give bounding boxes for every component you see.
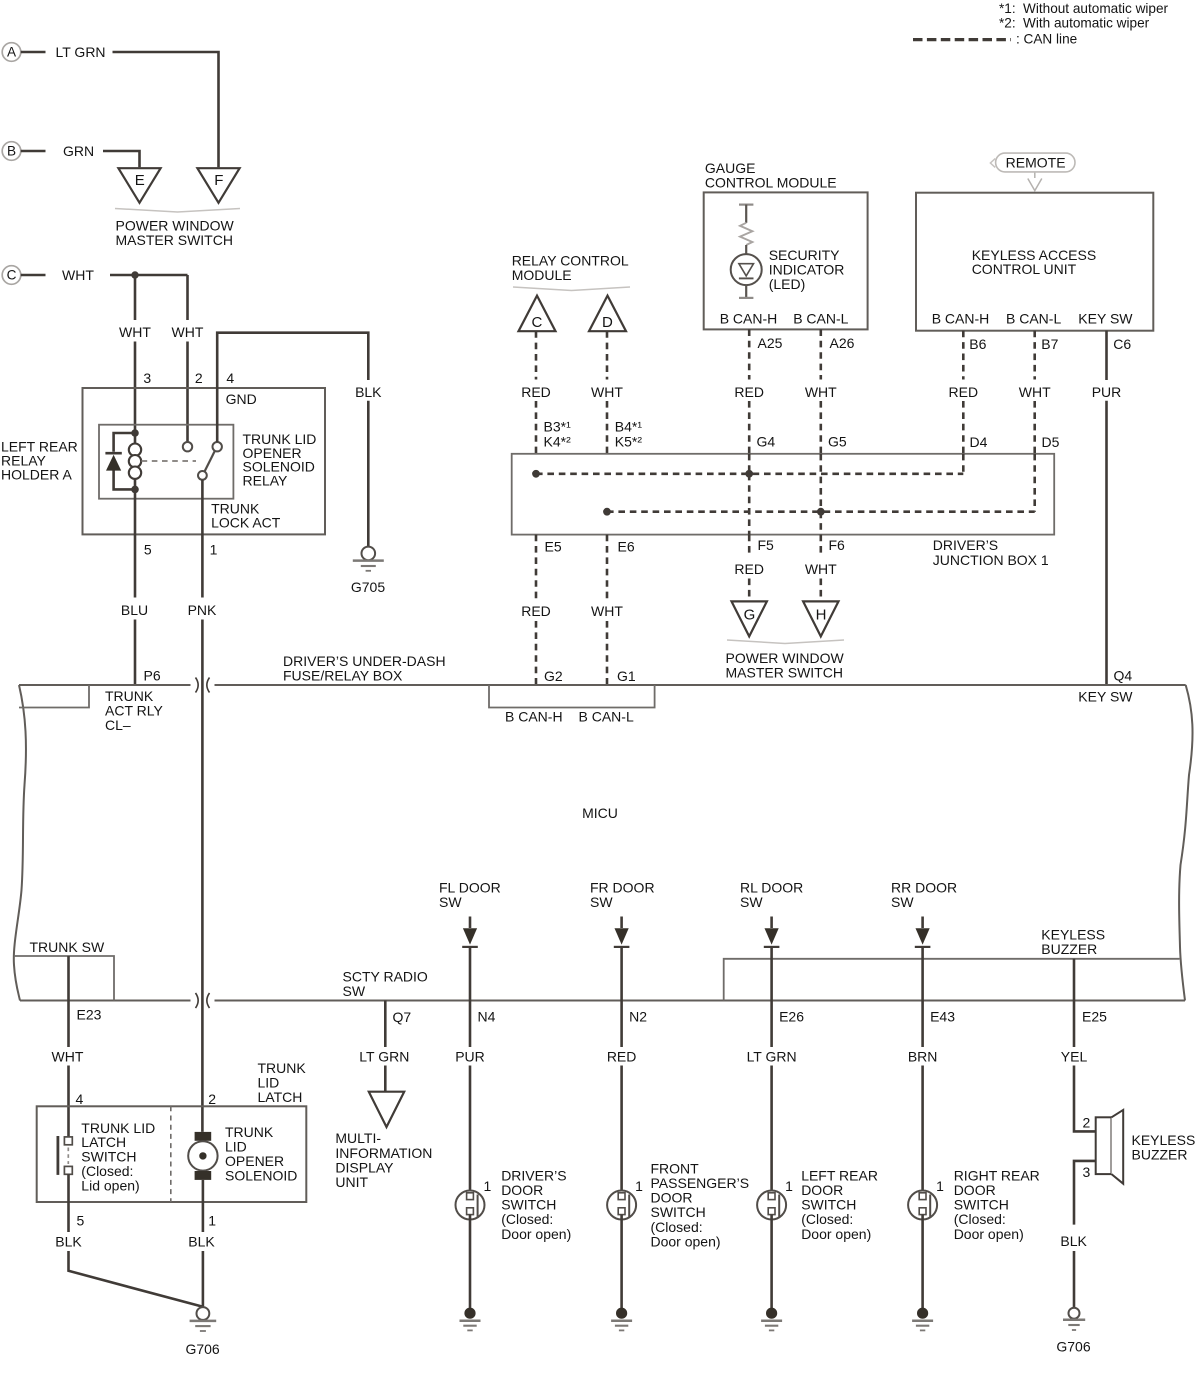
svg-text:RIGHT REAR: RIGHT REAR: [954, 1167, 1040, 1183]
left rear relay holder A outer box: [83, 388, 326, 534]
left rear door switch: [757, 1191, 786, 1220]
wire LT GRN Q7 to multi-information display unit: [384, 1001, 387, 1048]
trunk lid opener solenoid relay inner box: [99, 425, 233, 499]
svg-text:(Closed:: (Closed:: [501, 1211, 553, 1227]
keyless buzzer: [1096, 1117, 1112, 1174]
wire WHT gauge A26 to junction box: [819, 329, 822, 379]
svg-text:SWITCH: SWITCH: [801, 1197, 856, 1213]
svg-text:Q4: Q4: [1114, 668, 1133, 684]
svg-text:FUSE/RELAY BOX: FUSE/RELAY BOX: [283, 668, 403, 684]
svg-text:WHT: WHT: [591, 384, 623, 400]
driver's door switch: [456, 1191, 485, 1220]
node CAN-H at C: [532, 470, 540, 478]
gauge control module box: [704, 192, 868, 329]
relay switch terminal pin4: [213, 442, 222, 451]
svg-text:N4: N4: [478, 1009, 496, 1025]
svg-text:GND: GND: [226, 391, 257, 407]
svg-text:MODULE: MODULE: [512, 267, 572, 283]
svg-text:G706: G706: [185, 1341, 219, 1357]
svg-text:K4*²: K4*²: [544, 433, 572, 449]
svg-text:B6: B6: [969, 336, 986, 352]
CAN-H dashed bus: [536, 472, 963, 475]
terminal H (power window master switch): [803, 601, 838, 636]
svg-text:B: B: [7, 144, 16, 159]
wire RED gauge A25 to junction box: [748, 329, 751, 379]
MICU top edge: [19, 684, 1186, 686]
svg-text:RED: RED: [949, 384, 979, 400]
svg-text:C6: C6: [1113, 336, 1131, 352]
CAN-L dashed bus: [607, 510, 1035, 513]
front passenger's door switch: [607, 1191, 636, 1220]
driver's junction box 1: [512, 454, 1054, 535]
ground (right rear door switch): [917, 1308, 928, 1319]
svg-text:*2:: *2:: [999, 16, 1016, 31]
svg-text:Door open): Door open): [651, 1233, 721, 1249]
svg-text:A: A: [7, 45, 17, 60]
wire left rear door switch to ground: [770, 1215, 773, 1309]
svg-text:E5: E5: [545, 539, 562, 555]
svg-text:GRN: GRN: [63, 143, 94, 159]
node CAN-L at F6: [817, 508, 825, 516]
node junction on wire C: [131, 271, 138, 278]
svg-text:(Closed:: (Closed:: [954, 1211, 1006, 1227]
svg-text:UNIT: UNIT: [335, 1174, 368, 1190]
wire RED E5 to MICU G2: [535, 535, 538, 599]
bracket under G/H: [727, 640, 844, 644]
svg-text:PUR: PUR: [1092, 384, 1122, 400]
wire PUR N4 to driver's door switch: [469, 1001, 472, 1048]
coil-switch dashed link: [142, 460, 196, 462]
wire PNK relay pin1 through MICU to solenoid: [201, 480, 204, 598]
svg-text:WHT: WHT: [62, 267, 94, 283]
svg-text:Q7: Q7: [393, 1009, 412, 1025]
svg-text:BRN: BRN: [908, 1049, 938, 1065]
svg-text:Door open): Door open): [501, 1226, 571, 1242]
svg-text:With automatic wiper: With automatic wiper: [1023, 16, 1150, 31]
svg-text:5: 5: [77, 1212, 85, 1228]
bottom right sub-box: [724, 959, 1180, 1001]
svg-text:E43: E43: [930, 1009, 955, 1025]
svg-text:*1:: *1:: [999, 1, 1016, 16]
wire WHT E6 to MICU G1: [606, 535, 609, 599]
REMOTE tag: [996, 153, 1075, 172]
wire YEL E25 to keyless buzzer: [1073, 959, 1076, 1047]
svg-text:C: C: [7, 268, 17, 283]
svg-text:F5: F5: [758, 537, 775, 553]
svg-text:1: 1: [210, 541, 218, 557]
svg-text:F6: F6: [829, 537, 846, 553]
multi-information display unit terminal: [369, 1092, 404, 1127]
wire latch switch to pin 5: [67, 1174, 70, 1232]
relay switch terminal pin2: [183, 442, 192, 451]
svg-text:Without automatic wiper: Without automatic wiper: [1023, 1, 1169, 16]
svg-text:C: C: [531, 314, 542, 331]
svg-text:1: 1: [208, 1212, 216, 1228]
RR door sw input arrow: [921, 917, 924, 929]
svg-text:CONTROL MODULE: CONTROL MODULE: [705, 174, 837, 190]
wire C horizontal to relay pin 2 branch: [110, 274, 188, 277]
svg-text:1: 1: [484, 1178, 492, 1194]
wire BRN E43 to right rear door switch: [921, 1001, 924, 1048]
svg-text:POWER WINDOW: POWER WINDOW: [726, 650, 845, 666]
junction box internal dashed wires: [748, 454, 751, 474]
svg-text:BLU: BLU: [121, 602, 148, 618]
internal tick bottom: [739, 297, 753, 299]
ground (front passenger's door switch): [616, 1308, 627, 1319]
svg-text:A25: A25: [758, 335, 783, 351]
svg-text:PUR: PUR: [455, 1049, 485, 1065]
svg-text:TRUNK SW: TRUNK SW: [30, 939, 105, 955]
svg-text:3: 3: [1083, 1164, 1091, 1180]
svg-text:SW: SW: [891, 894, 914, 910]
svg-text:KEY SW: KEY SW: [1078, 689, 1133, 705]
trunk sw sub-box: [14, 956, 114, 1001]
bracket under relay control module: [513, 287, 630, 291]
svg-text:1: 1: [635, 1178, 643, 1194]
trunk lid latch divider: [170, 1106, 172, 1202]
FR door sw input arrow: [620, 917, 623, 929]
svg-text:E25: E25: [1082, 1008, 1107, 1024]
svg-text:DRIVER’S: DRIVER’S: [501, 1167, 566, 1183]
svg-text:D5: D5: [1042, 434, 1060, 450]
svg-text:G705: G705: [351, 579, 385, 595]
svg-text:2: 2: [1083, 1115, 1091, 1131]
wire BLU relay pin5 to MICU P6: [134, 489, 137, 597]
svg-text:G2: G2: [544, 668, 563, 684]
svg-text:DISPLAY: DISPLAY: [335, 1159, 394, 1175]
svg-text:WHT: WHT: [805, 561, 837, 577]
svg-text:D4: D4: [970, 434, 988, 450]
svg-text:MULTI-: MULTI-: [335, 1130, 381, 1146]
svg-text:RELAY CONTROL: RELAY CONTROL: [512, 252, 629, 268]
svg-text:2: 2: [208, 1091, 216, 1107]
terminal C (relay control module): [519, 296, 556, 332]
svg-text:HOLDER A: HOLDER A: [1, 466, 72, 482]
svg-text:DOOR: DOOR: [954, 1182, 996, 1198]
svg-text:RED: RED: [521, 384, 551, 400]
svg-text:SOLENOID: SOLENOID: [225, 1167, 297, 1183]
trunk act rly sub-box: [19, 685, 89, 708]
svg-text:JUNCTION BOX 1: JUNCTION BOX 1: [933, 552, 1049, 568]
svg-text:B CAN-H: B CAN-H: [720, 311, 778, 327]
svg-text:BLK: BLK: [1060, 1233, 1087, 1249]
svg-text:YEL: YEL: [1061, 1049, 1088, 1065]
svg-text:B CAN-L: B CAN-L: [1006, 311, 1061, 327]
terminal F (power window master switch): [197, 168, 239, 203]
bracket under E/F: [115, 209, 240, 213]
node relay coil top: [131, 429, 139, 437]
wire RED terminal C to junction box: [535, 331, 538, 379]
svg-text:A26: A26: [830, 335, 855, 351]
svg-text:MICU: MICU: [582, 805, 618, 821]
svg-text:DOOR: DOOR: [651, 1190, 693, 1206]
svg-text:1: 1: [936, 1178, 944, 1194]
MICU left torn edge: [14, 685, 26, 1001]
wire A to terminal F: [113, 52, 219, 167]
svg-text:DRIVER’S UNDER-DASH: DRIVER’S UNDER-DASH: [283, 653, 446, 669]
svg-text:: CAN line: : CAN line: [1016, 31, 1077, 46]
wire RED N2 to front passenger's door switch: [620, 1001, 623, 1048]
svg-text:BUZZER: BUZZER: [1132, 1146, 1188, 1162]
svg-text:WHT: WHT: [591, 603, 623, 619]
latch switch terminal bottom: [64, 1166, 72, 1174]
wire WHT to relay pin 3: [134, 275, 137, 320]
svg-text:B CAN-L: B CAN-L: [793, 311, 848, 327]
terminal D (relay control module): [589, 296, 626, 332]
svg-text:K5*²: K5*²: [615, 433, 643, 449]
svg-text:WHT: WHT: [119, 324, 151, 340]
legend CAN line sample: [913, 38, 1011, 41]
svg-text:BLK: BLK: [355, 384, 382, 400]
wire WHT terminal D to junction box: [606, 331, 609, 379]
svg-text:WHT: WHT: [52, 1049, 84, 1065]
svg-text:H: H: [816, 607, 827, 624]
wire C to WHT label: [21, 274, 46, 277]
svg-text:DOOR: DOOR: [501, 1182, 543, 1198]
relay coil: [134, 433, 137, 444]
latch switch dashed contact: [67, 1148, 69, 1165]
wire front passenger's door switch to ground: [620, 1215, 623, 1309]
svg-text:SWITCH: SWITCH: [501, 1197, 556, 1213]
svg-text:G: G: [744, 607, 756, 624]
svg-text:REMOTE: REMOTE: [1006, 154, 1066, 170]
node CAN-H at G4: [745, 470, 753, 478]
svg-text:DOOR: DOOR: [801, 1182, 843, 1198]
remote arrow into keyless unit: [1034, 173, 1036, 178]
ground (left rear door switch): [766, 1308, 777, 1319]
svg-text:BUZZER: BUZZER: [1041, 941, 1097, 957]
svg-text:DRIVER’S: DRIVER’S: [933, 537, 998, 553]
svg-text:SWITCH: SWITCH: [651, 1204, 706, 1220]
svg-text:SW: SW: [590, 894, 613, 910]
trunk lid opener solenoid motor: [188, 1141, 217, 1170]
connector C: [2, 266, 21, 285]
wire crossing marks top edge: [196, 678, 210, 693]
svg-text:G4: G4: [757, 434, 776, 450]
svg-text:CONTROL UNIT: CONTROL UNIT: [972, 261, 1077, 277]
svg-text:BLK: BLK: [188, 1234, 215, 1250]
svg-text:RED: RED: [734, 384, 764, 400]
svg-text:4: 4: [76, 1091, 84, 1107]
svg-text:B CAN-H: B CAN-H: [505, 709, 563, 725]
svg-text:INFORMATION: INFORMATION: [335, 1145, 432, 1161]
svg-text:SW: SW: [740, 894, 763, 910]
svg-text:WHT: WHT: [172, 324, 204, 340]
wire BLK buzzer to ground: [1074, 1161, 1096, 1225]
node CAN-L at D: [603, 508, 611, 516]
svg-text:Door open): Door open): [954, 1226, 1024, 1242]
wire B to GRN label: [21, 150, 46, 153]
svg-text:MASTER SWITCH: MASTER SWITCH: [726, 665, 843, 681]
svg-text:LOCK ACT: LOCK ACT: [211, 515, 281, 531]
svg-text:B CAN-L: B CAN-L: [579, 709, 634, 725]
wire driver's door switch to ground: [469, 1215, 472, 1309]
svg-text:WHT: WHT: [805, 384, 837, 400]
svg-text:E23: E23: [77, 1007, 102, 1023]
MICU bottom edge: [20, 1000, 1185, 1002]
wire B to terminal E: [103, 151, 140, 167]
svg-text:(Closed:: (Closed:: [801, 1211, 853, 1227]
svg-text:POWER WINDOW: POWER WINDOW: [116, 218, 235, 234]
svg-text:LEFT REAR: LEFT REAR: [801, 1167, 878, 1183]
MICU right torn edge: [1179, 685, 1192, 1001]
terminal G (power window master switch): [732, 601, 767, 636]
svg-text:Door open): Door open): [801, 1226, 871, 1242]
svg-text:5: 5: [144, 541, 152, 557]
connector B: [2, 142, 21, 161]
svg-text:WHT: WHT: [1019, 384, 1051, 400]
resistor R (security indicator): [740, 223, 752, 245]
svg-text:LT GRN: LT GRN: [359, 1049, 409, 1065]
diode cathode bar: [105, 452, 121, 455]
FL door sw input arrow: [469, 917, 472, 929]
connector A: [2, 43, 21, 62]
svg-text:P6: P6: [144, 668, 161, 684]
svg-text:LT GRN: LT GRN: [56, 44, 106, 60]
svg-text:RED: RED: [607, 1049, 637, 1065]
svg-text:PASSENGER’S: PASSENGER’S: [651, 1175, 750, 1191]
svg-text:(Closed:: (Closed:: [651, 1219, 703, 1235]
wire relay pin4 to BLK ground: [217, 333, 368, 442]
svg-text:RED: RED: [734, 561, 764, 577]
node relay coil bottom: [131, 486, 139, 494]
ground G706 (trunk): [197, 1307, 210, 1320]
svg-text:G1: G1: [617, 668, 636, 684]
wire A to LT GRN label: [21, 51, 46, 54]
security indicator LED: [731, 254, 762, 285]
right rear door switch: [908, 1191, 937, 1220]
terminal E (power window master switch): [118, 168, 160, 203]
svg-text:FRONT: FRONT: [651, 1160, 700, 1176]
relay clamp diode branch wire: [114, 433, 135, 489]
svg-text:SW: SW: [343, 983, 366, 999]
wire solenoid to ground: [202, 1180, 205, 1232]
wire WHT F6 to terminal H: [819, 535, 822, 557]
wire WHT keyless B7 to junction box D5: [1033, 331, 1036, 380]
RL door sw input arrow: [770, 917, 773, 929]
B CAN sub-box: [489, 685, 655, 708]
svg-text:N2: N2: [629, 1009, 647, 1025]
wire RED keyless B6 to junction box D4: [962, 331, 965, 380]
internal tick top: [739, 204, 753, 206]
svg-text:2: 2: [195, 370, 203, 386]
wire LT GRN E26 to left rear door switch: [770, 1001, 773, 1048]
relay switch common terminal: [198, 471, 207, 480]
svg-text:G706: G706: [1056, 1338, 1090, 1354]
svg-text:3: 3: [143, 370, 151, 386]
svg-text:LT GRN: LT GRN: [747, 1049, 797, 1065]
svg-text:F: F: [214, 172, 223, 189]
trunk lid latch box: [37, 1106, 307, 1202]
svg-text:PNK: PNK: [188, 602, 217, 618]
svg-text:Lid open): Lid open): [81, 1177, 139, 1193]
wire PUR keyless C6 to MICU Q4: [1105, 331, 1108, 380]
svg-text:4: 4: [226, 370, 234, 386]
svg-text:B CAN-H: B CAN-H: [932, 311, 990, 327]
svg-text:RELAY: RELAY: [243, 472, 289, 488]
diode D1: [106, 455, 121, 471]
svg-text:E6: E6: [618, 539, 635, 555]
wire crossing marks bottom edge: [196, 993, 210, 1008]
svg-text:SWITCH: SWITCH: [954, 1197, 1009, 1213]
latch switch terminal top: [64, 1137, 72, 1145]
svg-text:1: 1: [785, 1178, 793, 1194]
trunk lid latch switch plunger: [57, 1136, 60, 1175]
keyless access control unit box: [916, 193, 1153, 331]
svg-text:RED: RED: [521, 603, 551, 619]
wire WHT to relay pin 2: [186, 275, 189, 320]
svg-text:KEY SW: KEY SW: [1078, 311, 1133, 327]
svg-text:B3*¹: B3*¹: [544, 419, 572, 435]
svg-text:G5: G5: [828, 434, 847, 450]
ground (driver's door switch): [464, 1308, 475, 1319]
svg-text:B7: B7: [1041, 336, 1058, 352]
ground G705: [362, 547, 376, 561]
svg-text:B4*¹: B4*¹: [615, 419, 643, 435]
svg-text:CL–: CL–: [105, 717, 131, 733]
svg-text:LATCH: LATCH: [258, 1089, 303, 1105]
svg-text:E: E: [135, 172, 145, 189]
wire WHT E23 to trunk lid latch switch: [67, 956, 70, 1047]
svg-text:E26: E26: [779, 1009, 804, 1025]
wire right rear door switch to ground: [921, 1215, 924, 1309]
trunk lid opener solenoid brush top: [195, 1132, 212, 1141]
svg-text:BLK: BLK: [55, 1234, 82, 1250]
svg-text:SW: SW: [439, 894, 462, 910]
relay switch blade: [205, 451, 215, 472]
svg-text:D: D: [602, 314, 613, 331]
wire RED F5 to terminal G: [748, 535, 751, 557]
svg-text:(LED): (LED): [769, 276, 806, 292]
trunk lid opener solenoid brush bottom: [195, 1171, 212, 1180]
ground G706 (buzzer): [1069, 1308, 1080, 1319]
svg-text:MASTER SWITCH: MASTER SWITCH: [116, 232, 233, 248]
